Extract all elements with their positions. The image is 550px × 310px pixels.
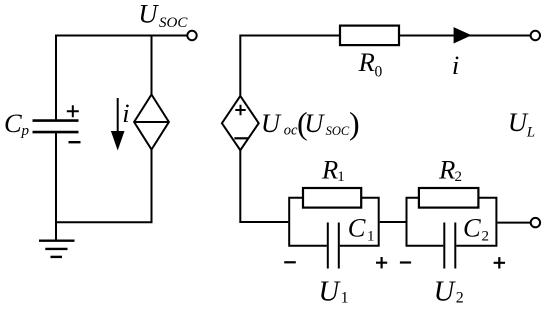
- svg-text:p: p: [21, 123, 30, 139]
- svg-text:L: L: [526, 125, 535, 141]
- svg-text:2: 2: [455, 169, 463, 185]
- svg-text:U: U: [261, 108, 282, 138]
- svg-text:R: R: [321, 155, 338, 185]
- svg-text:R: R: [438, 155, 455, 185]
- svg-text:U: U: [319, 277, 342, 308]
- svg-text:SOC: SOC: [326, 124, 350, 138]
- svg-text:C: C: [348, 213, 366, 243]
- svg-text:U: U: [304, 108, 325, 138]
- svg-text:U: U: [508, 107, 529, 137]
- svg-text:C: C: [463, 213, 481, 243]
- svg-text:0: 0: [375, 63, 383, 80]
- svg-text:SOC: SOC: [159, 15, 188, 31]
- svg-text:oc: oc: [284, 123, 298, 139]
- svg-text:1: 1: [367, 229, 375, 245]
- svg-text:C: C: [4, 108, 22, 138]
- svg-text:R: R: [358, 47, 375, 77]
- svg-text:i: i: [452, 50, 459, 80]
- svg-text:U: U: [138, 0, 159, 29]
- svg-text:U: U: [434, 277, 457, 308]
- svg-text:1: 1: [337, 169, 345, 185]
- svg-text:): ): [349, 105, 360, 141]
- svg-text:2: 2: [456, 290, 464, 307]
- svg-text:2: 2: [482, 229, 490, 245]
- svg-text:i: i: [122, 98, 129, 128]
- svg-text:1: 1: [341, 290, 349, 307]
